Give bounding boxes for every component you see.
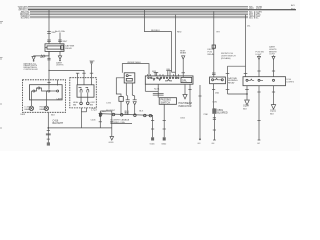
bulb low beam right bbox=[86, 102, 89, 105]
dimmer feed loop bbox=[122, 64, 149, 76]
dimmer relay box bbox=[124, 73, 135, 83]
svg-text:WHT: WHT bbox=[249, 8, 254, 10]
branch left under box bbox=[144, 84, 146, 91]
wire x259 to bottom ground bbox=[258, 86, 260, 140]
svg-text:WHT: WHT bbox=[63, 41, 68, 43]
relay: daytime running lights relay box bbox=[45, 44, 64, 52]
bulb high beam right bbox=[80, 102, 83, 105]
svg-text:SWITCH: SWITCH bbox=[161, 102, 171, 105]
svg-text:BM: BM bbox=[90, 104, 93, 106]
inline connector wide dashes bbox=[153, 93, 164, 95]
turn signal relay box bbox=[210, 77, 226, 84]
bus wire 1 bbox=[28, 5, 248, 7]
bus wire 2 bbox=[28, 7, 248, 9]
wire: horizontal branch y70 bbox=[49, 70, 84, 77]
svg-text:No.51: No.51 bbox=[154, 88, 160, 90]
ground rail bottom-left bbox=[47, 112, 49, 143]
svg-text:RELAY: RELAY bbox=[65, 47, 72, 50]
svg-text:DRL: DRL bbox=[182, 79, 187, 82]
right headlight internal wiring bbox=[79, 88, 82, 89]
wire: drop from bus 6 at x245.5 bbox=[245, 15, 247, 77]
svg-text:RED/BLU: RED/BLU bbox=[151, 30, 160, 32]
svg-text:BLK: BLK bbox=[243, 109, 247, 111]
wire: left branch from relay to connector arrow bbox=[34, 51, 49, 56]
left headlight internal wiring bbox=[32, 90, 34, 92]
svg-text:G201: G201 bbox=[270, 110, 277, 113]
right headlight inner case bbox=[77, 85, 94, 97]
pin ticks on top edge bbox=[148, 74, 179, 76]
svg-text:G401: G401 bbox=[150, 143, 156, 145]
wire x190 below switch bbox=[189, 84, 191, 105]
left headlight inner case bbox=[30, 85, 63, 100]
wire: drop from dark bus at x49 bbox=[48, 10, 50, 44]
svg-text:CONT: CONT bbox=[269, 54, 276, 56]
svg-text:INDICATOR: INDICATOR bbox=[179, 105, 192, 108]
wire x273.5 to ground arrow bbox=[273, 86, 275, 105]
svg-text:RED: RED bbox=[177, 32, 182, 34]
svg-text:BLK: BLK bbox=[270, 114, 274, 116]
svg-text:UNDER DASH: UNDER DASH bbox=[127, 61, 141, 64]
below switch: wire with fuse label bbox=[157, 84, 159, 98]
svg-text:G204: G204 bbox=[243, 105, 250, 108]
wire: x49 from relay down to headlight box bbox=[48, 51, 50, 79]
wires below dimmer relay bbox=[126, 83, 127, 100]
lighting switch box bbox=[145, 76, 193, 84]
connector arrows pair bbox=[126, 102, 129, 105]
pin ticks above right headlight bbox=[76, 72, 79, 74]
svg-text:BM: BM bbox=[73, 104, 76, 106]
interlock label box bbox=[159, 98, 176, 105]
svg-text:BLK: BLK bbox=[102, 111, 106, 113]
wire: into left inner bbox=[48, 80, 50, 89]
wire x200 bbox=[199, 85, 201, 139]
svg-text:C723: C723 bbox=[91, 109, 97, 112]
pins above lighting switch bbox=[154, 71, 159, 73]
connector on x215 bbox=[212, 45, 215, 48]
long ground wire y114 bbox=[99, 114, 153, 116]
svg-text:LIGHTS: LIGHTS bbox=[56, 65, 64, 67]
bus wire 6 bbox=[30, 14, 248, 16]
bus right labels bbox=[249, 4, 295, 20]
svg-text:LIGHTS: LIGHTS bbox=[287, 82, 295, 84]
svg-text:BLK: BLK bbox=[139, 111, 143, 113]
svg-text:BLU/RED: BLU/RED bbox=[217, 112, 228, 115]
fog light unit box bbox=[243, 77, 286, 86]
ground square left bbox=[151, 137, 154, 140]
bus wire 3 (dark main feed) bbox=[28, 9, 296, 11]
connector arrow left bbox=[32, 57, 35, 60]
svg-text:No.45 15A: No.45 15A bbox=[55, 30, 65, 33]
wire below DRL box bbox=[184, 84, 186, 94]
svg-text:RELAY: RELAY bbox=[228, 82, 235, 85]
svg-text:STOP: STOP bbox=[256, 8, 262, 10]
svg-text:BLK: BLK bbox=[51, 114, 55, 116]
svg-text:BEAM: BEAM bbox=[40, 108, 46, 111]
wires below fog box bbox=[246, 86, 248, 94]
svg-text:PNK: PNK bbox=[204, 114, 209, 116]
bus wire 4 bbox=[30, 10, 248, 12]
wire below relay to dark connector bbox=[213, 84, 216, 109]
svg-text:RED: RED bbox=[40, 57, 45, 59]
wires to grounds bbox=[152, 115, 154, 137]
wire: below right headlight to ground rail bbox=[80, 108, 82, 128]
svg-text:CONTROLLER: CONTROLLER bbox=[24, 69, 38, 71]
connector T-bars bbox=[126, 99, 130, 101]
bus wire 7 bbox=[30, 15, 248, 17]
DRL inner box bbox=[181, 77, 192, 82]
svg-text:BLU: BLU bbox=[249, 18, 253, 20]
wire: dimmer box side branch to connector bbox=[116, 78, 124, 97]
svg-text:BEAM: BEAM bbox=[25, 108, 31, 111]
right headlight assembly box bbox=[70, 78, 97, 108]
svg-text:BLU/RED: BLU/RED bbox=[21, 18, 30, 20]
svg-text:BLK/WHT: BLK/WHT bbox=[53, 122, 64, 125]
svg-text:LAMP: LAMP bbox=[57, 97, 63, 100]
dark connector box bbox=[212, 109, 216, 114]
bus wire 8 bbox=[30, 17, 248, 19]
wire: drop from bus 4 at x215 bbox=[213, 11, 215, 77]
bulb low beam left bbox=[29, 106, 33, 110]
diodes inside bbox=[153, 78, 155, 80]
wires joining ground rail bbox=[99, 111, 101, 128]
connector arrow under x60 bbox=[59, 51, 61, 55]
svg-text:BEAM: BEAM bbox=[180, 52, 186, 55]
fuse element inside relay bbox=[47, 46, 61, 49]
left headlight assembly box bbox=[23, 80, 66, 113]
bus left labels bbox=[18, 6, 31, 19]
bulb high beam left bbox=[44, 106, 48, 110]
ground square right bbox=[163, 137, 166, 140]
wire: drop from bus 6 at x175.5 bbox=[175, 15, 177, 76]
H wire feeding fog box bbox=[228, 65, 246, 67]
svg-text:(IN DASH): (IN DASH) bbox=[221, 57, 231, 60]
connector ticks on x49 bbox=[47, 30, 51, 32]
wire: drop from dark bus x144.5, jog to x171.5 bbox=[145, 10, 172, 72]
svg-text:RELAY: RELAY bbox=[208, 53, 215, 56]
bus wire 5 bbox=[30, 12, 248, 14]
